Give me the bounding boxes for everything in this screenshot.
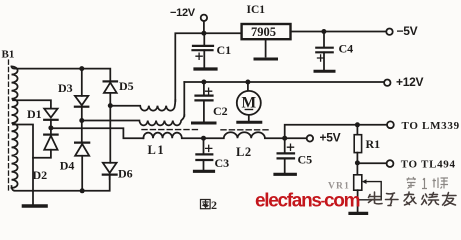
svg-text:D2: D2 [33, 168, 48, 182]
svg-text:−5V: −5V [397, 24, 418, 38]
svg-text:2: 2 [211, 198, 217, 212]
inductor L1 winding w2 (middle, from D3/D4 node) [82, 115, 185, 125]
svg-text:D4: D4 [60, 159, 75, 173]
svg-text:TO LM339: TO LM339 [402, 120, 460, 132]
node: motor tap [245, 80, 250, 85]
wire: B1 bottom end to bottom line [12, 175, 110, 191]
watermark 第1牌 (faded) [407, 177, 449, 189]
node: -12V / C1 [201, 31, 206, 36]
svg-text:C1: C1 [217, 43, 232, 57]
ground (C5) [275, 173, 295, 176]
svg-text:D6: D6 [118, 167, 133, 181]
terminal +5V [307, 135, 313, 141]
node: R1 top [355, 122, 360, 127]
transformer B1 core (dashed) [8, 60, 10, 190]
svg-text:+12V: +12V [396, 75, 423, 89]
ground (C4) [315, 70, 334, 73]
node: 7905 out / C4 [321, 29, 326, 34]
capacitor C2 [203, 82, 205, 95]
ground (C1) [195, 67, 216, 70]
transformer B1 secondary winding [12, 66, 18, 188]
node: D3 top rail junction [79, 66, 84, 71]
char 烧 [422, 193, 439, 206]
svg-text:C4: C4 [339, 42, 354, 56]
ground (C2) [193, 122, 216, 125]
terminal -5V [386, 29, 392, 35]
figure caption 图2 [201, 200, 211, 209]
op-amp? no: IC1 7905 regulator box [242, 24, 291, 39]
terminal -12V [201, 15, 207, 21]
wire: top tap of B1 to D5/D3 top rail [12, 67, 111, 80]
wire: +5V branch to terminal [285, 137, 307, 139]
node: C2 tap [201, 80, 206, 85]
svg-text:L2: L2 [236, 145, 252, 159]
wire: L1 w1 riser to -12V line [175, 33, 241, 101]
svg-text:C2: C2 [213, 104, 228, 118]
capacitor C4 [323, 32, 325, 48]
node: D4 anode on bottom line [80, 188, 85, 193]
resistor R1 [356, 125, 358, 135]
svg-text:7905: 7905 [251, 25, 276, 39]
wire: 7905 gnd pin [265, 39, 267, 56]
wire: 7905 output [291, 31, 387, 33]
terminal TO TL494 [387, 160, 394, 167]
char 发 [404, 192, 416, 205]
node: D5/D6 junction [108, 103, 113, 108]
wire: B1 center tap down to ground junction [13, 125, 33, 191]
svg-text:R1: R1 [366, 137, 381, 151]
char 友 [443, 193, 457, 206]
terminal TO LM339 [387, 121, 394, 128]
capacitor C5 [284, 138, 286, 152]
capacitor C3 [203, 138, 205, 153]
svg-text:D5: D5 [119, 79, 134, 93]
inductor L2 core (dashed) [221, 129, 271, 131]
diode D4 [75, 142, 89, 144]
diode D1 [44, 109, 57, 118]
diode D5 [104, 80, 117, 82]
capacitor C1 [203, 33, 205, 45]
ground (7905) [255, 58, 277, 61]
svg-text:C5: C5 [298, 153, 313, 167]
wire: L1 w2 riser to +12V rail [183, 82, 185, 116]
ground (main, bottom-left) [32, 191, 34, 204]
svg-text:D3: D3 [58, 81, 73, 95]
svg-text:+5V: +5V [320, 131, 341, 145]
inductor L1 winding w1 (top, from D5/D6 node) [110, 100, 175, 111]
diode D6 [109, 106, 111, 163]
VR1 wiper arrow [358, 182, 382, 200]
char 电 [369, 192, 383, 204]
node: C3 tap [201, 136, 206, 141]
wire: -12V node to terminal [203, 21, 205, 33]
wire: node C to L1 lower winding (with step down) [51, 128, 143, 138]
node: D3/D4 junction [79, 118, 84, 123]
svg-text:B1: B1 [2, 49, 15, 61]
diode D2 [44, 134, 57, 136]
wire: +5V riser and top rail to LM339 [285, 125, 387, 138]
inductor L1 winding w3 (bottom) [143, 133, 203, 139]
ground (C3) [195, 170, 214, 173]
svg-text:D1: D1 [27, 107, 42, 121]
svg-text:IC1: IC1 [247, 4, 266, 16]
svg-text:C3: C3 [215, 156, 230, 170]
svg-text:L1: L1 [148, 143, 166, 157]
node: C5 tap [282, 136, 287, 141]
inductor L2 [204, 132, 285, 138]
diode D3 [81, 69, 83, 96]
wire: D2 anode to center-tap ground line [33, 150, 51, 158]
watermark 电子发烧友 (dark) [369, 192, 457, 206]
ground (VR1) [350, 212, 367, 215]
wire: +12V rail [184, 81, 384, 83]
motor M [247, 82, 249, 91]
node: D1/D2 junction [48, 125, 53, 130]
wire: to TL494 terminal [357, 162, 386, 164]
svg-text:−12V: −12V [170, 7, 196, 19]
wire: B1 tap 2 to D1 anode [13, 100, 51, 108]
potentiometer VR1 [356, 163, 358, 175]
node: R1 bottom [355, 160, 360, 165]
inductor L1 core (dashed) [142, 129, 199, 131]
svg-text:elecfans-com: elecfans-com [255, 191, 360, 212]
char 子 [386, 193, 399, 206]
terminal +12V [384, 80, 390, 86]
svg-text:TO TL494: TO TL494 [401, 159, 456, 171]
